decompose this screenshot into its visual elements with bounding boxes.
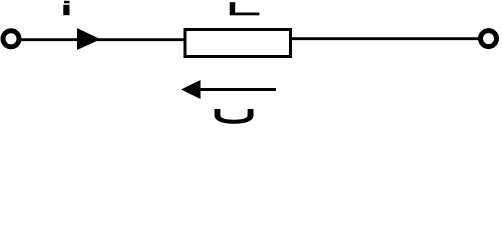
current arrow xyxy=(77,28,101,50)
label U below arrow xyxy=(215,109,254,124)
label L above box xyxy=(230,2,260,15)
terminal right xyxy=(481,31,497,47)
wire left xyxy=(21,38,185,41)
terminal left xyxy=(3,31,19,47)
wire right xyxy=(292,37,479,40)
label i xyxy=(63,1,69,15)
voltage arrow (points left) xyxy=(181,80,276,99)
element box xyxy=(185,30,291,57)
